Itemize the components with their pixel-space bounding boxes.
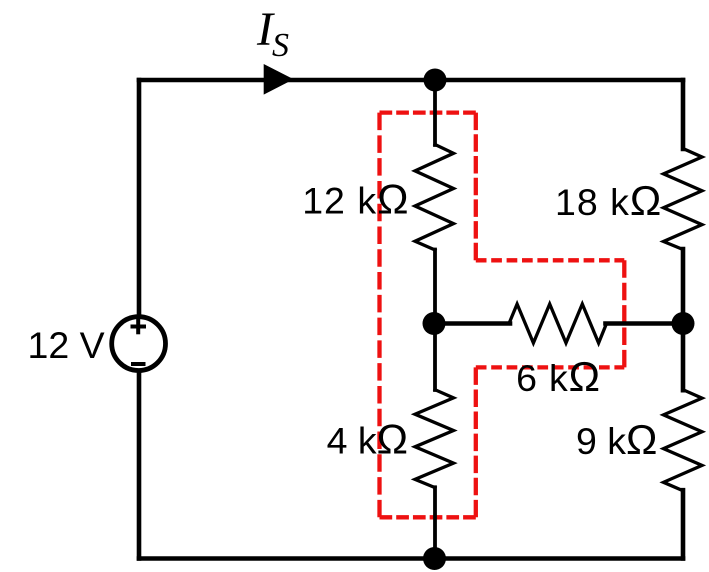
svg-text:18 kΩ: 18 kΩ	[555, 177, 662, 224]
svg-text:9 kΩ: 9 kΩ	[576, 416, 657, 463]
svg-text:12 kΩ: 12 kΩ	[302, 176, 409, 223]
svg-text:6 kΩ: 6 kΩ	[516, 353, 601, 400]
svg-text:4 kΩ: 4 kΩ	[327, 416, 408, 463]
svg-text:12 V: 12 V	[28, 324, 105, 366]
svg-text:S: S	[272, 27, 289, 64]
